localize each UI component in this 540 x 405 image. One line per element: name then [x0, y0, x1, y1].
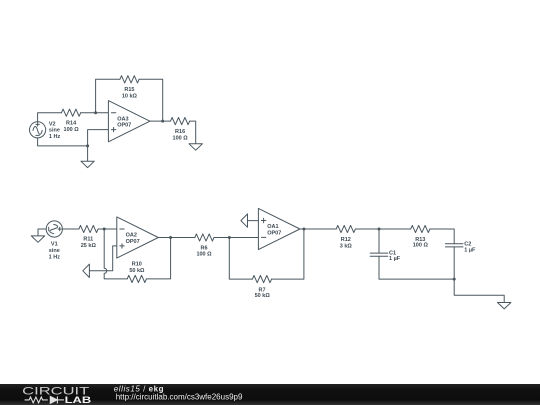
ground at R16: [189, 144, 202, 150]
wire R12 to R13: [355, 228, 410, 230]
capacitor C1: [370, 250, 401, 261]
wire feedback up to R15: [96, 79, 120, 112]
logo resistor symbol: [25, 397, 48, 403]
resistor R14: [62, 109, 81, 133]
wire V1 left to ground: [38, 229, 46, 236]
voltage source V2: [29, 122, 60, 140]
resistor R10: [127, 262, 146, 283]
wire R14 to OA3 inverting input: [81, 112, 109, 114]
voltage source V1: [46, 221, 62, 261]
resistor R16: [171, 118, 190, 142]
wire R10 up to OA2 output: [146, 238, 170, 279]
svg-text:LAB: LAB: [65, 395, 92, 405]
wire OA1 output to R12: [300, 228, 336, 230]
wire feedback down to R7: [229, 238, 252, 280]
op-amp OA1: [258, 208, 300, 249]
logo diode symbol: [50, 396, 64, 403]
node OA3 output junction: [161, 120, 164, 123]
ground at OA1 noninverting input: [241, 214, 248, 227]
capacitor C2: [445, 242, 476, 254]
resistor R15: [120, 76, 139, 100]
node bottom rail junction: [453, 278, 456, 281]
wire V2 top to R14: [38, 113, 62, 122]
op-amp OA2: [117, 217, 159, 258]
wire R11 to OA2 inverting input: [98, 228, 117, 230]
svg-text:http://circuitlab.com/cs3wfe26: http://circuitlab.com/cs3wfe26us9p9: [116, 393, 243, 402]
wire C1 top stem: [378, 229, 380, 253]
wire OA3 noninverting input rail: [88, 130, 109, 146]
wire R15 down to OA3 output: [139, 79, 163, 121]
wire R16 to ground: [190, 121, 196, 144]
wire OA3 output to R16: [150, 120, 171, 122]
wire R7 up to OA1 output: [272, 229, 304, 279]
wire OA2 noninverting input to ground: [89, 246, 116, 271]
resistor R13: [411, 225, 430, 248]
ground at OA2 noninverting input: [83, 264, 90, 277]
ground at output: [498, 303, 511, 309]
wire R13 to C2: [430, 229, 454, 244]
resistor R11: [79, 225, 98, 249]
node R6/OA1 feedback junction: [228, 236, 231, 239]
resistor R7: [252, 276, 271, 299]
node OA1 output junction: [302, 228, 305, 231]
op-amp OA3: [108, 101, 149, 142]
wire feedback down with hop over ground wire: [104, 229, 127, 279]
resistor R12: [336, 225, 355, 249]
wire bottom rail C1 to C2: [379, 278, 454, 280]
node R11/OA2 feedback junction: [103, 228, 106, 231]
ground at V1: [31, 236, 44, 242]
wire R6 to OA1 inverting input: [214, 237, 258, 239]
wire OA2 output to R6: [158, 237, 195, 239]
node OA2 output junction: [169, 236, 172, 239]
wire C1 bottom stem: [378, 256, 380, 279]
ground below V2 rail: [81, 146, 94, 168]
node bottom rail junction: [86, 144, 89, 147]
node feedback junction at R14/OA3: [94, 111, 97, 114]
wire C2 bottom stem: [453, 247, 455, 279]
resistor R6: [195, 234, 214, 258]
footer bar: [0, 384, 540, 405]
wire V1 to R11: [62, 228, 79, 230]
node C1 junction: [378, 228, 381, 231]
wire V2 bottom rail: [38, 138, 88, 146]
wire rail to output ground: [454, 279, 504, 302]
wire OA1 noninverting input to ground: [248, 220, 259, 222]
